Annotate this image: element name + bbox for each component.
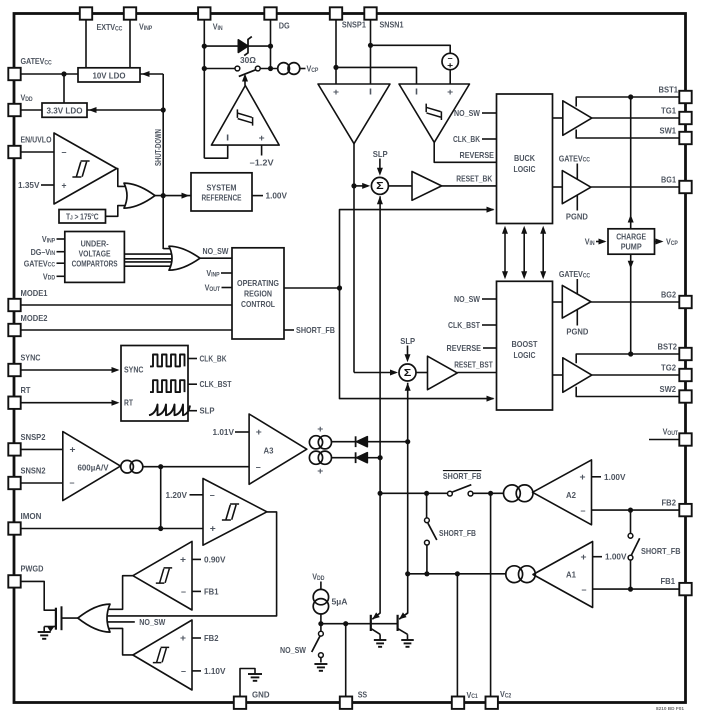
wire shutdown to 10V LDO with arrow: [140, 73, 163, 75]
wire switch to A2 mirror: [473, 492, 504, 494]
wire BST1 rail: [576, 97, 680, 107]
svg-text:NO_SW: NO_SW: [454, 108, 480, 118]
amp error A2: [533, 460, 592, 525]
svg-text:CHARGE: CHARGE: [616, 231, 646, 241]
wire A2 + to 1.00V: [592, 476, 602, 478]
wire MODE1 pin to operating region control: [21, 304, 233, 306]
wire FB2 stub: [192, 637, 201, 639]
node junction VIN/switch row: [202, 66, 207, 71]
wire IMON pin row: [21, 528, 204, 530]
pin SS: [340, 697, 352, 709]
wire SW2 rail: [576, 387, 680, 397]
regulator 10V LDO: [78, 68, 140, 82]
node junction A1 row/VC1 drop: [455, 571, 460, 576]
svg-text:TG2: TG2: [661, 363, 676, 373]
voltage source offset boost sense: [442, 53, 458, 69]
amp error A3: [249, 414, 307, 484]
amp error A1: [533, 542, 593, 608]
wire VCP output with arrow: [655, 241, 661, 243]
box oscillator SYNC/RT: [121, 346, 188, 422]
svg-text:TG1: TG1: [661, 106, 676, 116]
svg-text:–1.2V: –1.2V: [250, 157, 275, 167]
node junction GATEVCC/3.3V LDO: [61, 71, 66, 76]
wire RT pin to oscillator with arrow: [21, 402, 118, 404]
wire boost logic to BG2 driver: [553, 301, 563, 303]
wire zener row VIN to DG: [204, 45, 270, 47]
wire double arrow buck-boost 3: [542, 228, 544, 277]
comparator PWGD FB2 1.10V: [133, 620, 192, 690]
svg-text:OPERATING: OPERATING: [237, 278, 279, 288]
diode VC2 clamp top: [355, 436, 357, 447]
svg-text:I: I: [415, 87, 418, 97]
driver BG2: [562, 285, 591, 318]
svg-text:A1: A1: [566, 570, 576, 580]
pin GND: [234, 697, 246, 709]
svg-text:BG2: BG2: [661, 290, 676, 300]
wire 1.35V reference to comparator: [41, 184, 54, 186]
pin VIN top: [198, 7, 210, 19]
svg-text:CLK_BK: CLK_BK: [200, 354, 227, 364]
current mirror A1 output: [506, 566, 523, 583]
wire GATEVCC pin to 10V LDO: [21, 73, 79, 75]
gate OR PWGD (left facing): [78, 604, 110, 632]
waveform slope ramp SLP: [149, 405, 190, 416]
svg-text:NO_SW: NO_SW: [203, 246, 229, 256]
wire FB1 comparator to PWGD OR: [107, 576, 133, 610]
wire FB1 stub: [192, 590, 201, 592]
wire BST2 rail: [576, 354, 680, 363]
wire SNSN1 pin vertical: [370, 20, 372, 85]
wire boost logic to TG2 driver: [553, 374, 563, 376]
box SYSTEM REFERENCE: [191, 173, 252, 211]
wire system reference 1.00V output: [252, 195, 263, 197]
svg-text:+: +: [317, 466, 323, 476]
wire OR output to system reference with arrow: [155, 195, 191, 197]
svg-text:–: –: [582, 584, 587, 594]
ground Q2 collector: [401, 639, 414, 641]
box UNDER-VOLTAGE COMPARTORS: [65, 232, 125, 283]
svg-text:SYNC: SYNC: [21, 353, 41, 363]
svg-text:CLK_BST: CLK_BST: [200, 379, 232, 389]
svg-text:+: +: [210, 524, 216, 534]
svg-text:LOGIC: LOGIC: [514, 350, 536, 360]
svg-text:BST2: BST2: [658, 342, 678, 352]
svg-text:–: –: [256, 462, 261, 472]
svg-text:FB2: FB2: [662, 498, 677, 508]
comparator PWGD FB1 0.90V: [133, 541, 192, 610]
box BUCK LOGIC: [497, 94, 553, 224]
transistor Q1 VC1 clamp: [370, 615, 372, 631]
svg-text:–: –: [62, 147, 67, 157]
wire FB1 net: [593, 588, 680, 590]
svg-text:REFERENCE: REFERENCE: [202, 193, 242, 203]
wire SHUT-DOWN vertical net: [162, 74, 164, 249]
wire CLK_BK output stub: [188, 358, 197, 360]
wire TG2 rail: [592, 374, 680, 376]
svg-text:10V LDO: 10V LDO: [93, 70, 127, 80]
wire shutdown to 3.3V LDO with arrow: [87, 109, 163, 111]
svg-text:NO_SW: NO_SW: [280, 645, 306, 655]
wire buck logic to BG1 driver: [553, 186, 563, 188]
wire MODE2 pin to operating region control: [21, 329, 233, 331]
wire arrow SLP into sigma2: [407, 346, 409, 360]
svg-text:BST1: BST1: [659, 85, 679, 95]
current source 5uA: [313, 589, 328, 604]
box CHARGE PUMP: [608, 229, 655, 254]
svg-text:+: +: [180, 555, 186, 565]
svg-text:1.20V: 1.20V: [166, 490, 188, 500]
label NO_SW with stub into PWGD OR: [107, 621, 135, 623]
pin VC1: [452, 697, 464, 709]
amp buck current comparator: [318, 84, 390, 144]
svg-text:REVERSE: REVERSE: [447, 343, 482, 353]
current mirror A3 output quad: [309, 436, 322, 449]
pin SNSN1: [364, 7, 376, 19]
box TJ > 175C thermal: [59, 210, 106, 224]
wire EXTVCC pin to 10V LDO: [85, 20, 87, 69]
label PGND BG2 with stub: [576, 310, 578, 326]
wire A1 + to 1.00V: [593, 556, 602, 558]
wire SNSP1 pin vertical: [335, 20, 337, 85]
svg-text:RT: RT: [21, 385, 31, 395]
svg-text:SNSP2: SNSP2: [21, 432, 46, 442]
wire sense amp output to A3 -: [143, 466, 249, 468]
pin SYNC: [8, 364, 20, 376]
wire TG1 rail: [592, 117, 680, 119]
svg-text:BUCK: BUCK: [514, 153, 535, 163]
pin MODE1: [8, 299, 20, 311]
node junction shutdown/3.3V LDO: [161, 107, 166, 112]
svg-text:–: –: [181, 666, 186, 676]
svg-text:FB2: FB2: [204, 633, 219, 643]
svg-text:+: +: [580, 472, 586, 482]
wire SYNC pin to oscillator with arrow: [21, 369, 118, 371]
pin SW1: [679, 132, 691, 144]
wire arrow VC into sigma1 bottom: [377, 196, 383, 204]
driver TG2: [563, 358, 592, 393]
label PGND BG1 with stub: [576, 195, 578, 211]
wire 1.20V to comparator -: [190, 494, 204, 496]
wire buck comparator output down to sigma nodes: [353, 144, 355, 373]
pin VOUT right: [679, 433, 691, 445]
svg-text:GND: GND: [252, 690, 270, 700]
wire SW1 rail: [576, 130, 680, 139]
wire GATEVCC branch down to 3.3V LDO: [63, 74, 65, 103]
wire SNSN1 to offset source: [371, 45, 451, 53]
wire SHORT_FB output stub: [284, 329, 294, 331]
wire SNSN2 pin to sense amp: [21, 482, 63, 484]
svg-text:+: +: [256, 427, 262, 437]
wire OR output NO_SW to operating region control: [200, 257, 232, 259]
wire BG1 rail: [591, 186, 680, 188]
ground Q1 collector: [374, 639, 387, 641]
wire EN/UVLO pin to comparator: [21, 151, 55, 153]
svg-text:DG: DG: [279, 21, 290, 31]
wire sigma2 to reset comparator: [416, 372, 428, 374]
svg-text:SLP: SLP: [373, 149, 388, 159]
wire + input to -1.2V: [261, 145, 263, 155]
node junction FB1/short switch: [628, 587, 633, 592]
wire TJ box output to OR gate: [106, 206, 128, 217]
wire ORC output to boost logic with arrow: [340, 288, 494, 399]
svg-text:CONTROL: CONTROL: [241, 299, 275, 309]
svg-text:EN/UVLO: EN/UVLO: [21, 135, 52, 145]
svg-text:BOOST: BOOST: [512, 339, 538, 349]
pin SNSP1: [330, 7, 342, 19]
svg-text:PGND: PGND: [566, 327, 588, 337]
switch SHORT_FB between FB2 and FB1: [630, 510, 632, 533]
svg-text:COMPARTORS: COMPARTORS: [72, 259, 118, 269]
svg-text:SLP: SLP: [200, 406, 215, 416]
wire base rail to transistors: [321, 623, 398, 625]
svg-text:FB1: FB1: [661, 576, 676, 586]
svg-text:+: +: [447, 60, 453, 70]
pin VC2: [486, 697, 498, 709]
gate OR NO_SW generator: [169, 246, 200, 270]
svg-text:SW1: SW1: [660, 126, 677, 136]
svg-text:UNDER-: UNDER-: [81, 239, 109, 249]
wire shutdown line into OR gate: [163, 248, 172, 250]
svg-text:IMON: IMON: [21, 511, 42, 521]
svg-text:PWGD: PWGD: [21, 564, 44, 574]
svg-text:CLK_BST: CLK_BST: [448, 320, 480, 330]
wire 1.01V to A3 +: [235, 431, 249, 433]
pin SNSP2: [8, 443, 20, 455]
svg-text:A2: A2: [566, 490, 576, 500]
pin DG: [264, 7, 276, 19]
node junction SS branch: [343, 621, 348, 626]
svg-text:1.01V: 1.01V: [213, 427, 235, 437]
svg-text:SW2: SW2: [660, 384, 677, 394]
wire PWGD pin to MOSFET drain: [21, 581, 56, 610]
pin VDD: [8, 104, 20, 116]
svg-text:Σ: Σ: [376, 180, 384, 192]
pin EXTVCC: [80, 7, 92, 19]
node junction diode/VC1: [378, 455, 383, 460]
wire switch row VIN side: [204, 68, 235, 70]
wire double arrow buck-boost 2: [523, 228, 525, 277]
pin BG2: [679, 296, 691, 308]
node junction BST2/charge pump: [628, 351, 633, 356]
node junction diode/VC2: [405, 439, 410, 444]
charge pump vertical line lower with down arrow: [630, 254, 632, 354]
svg-text:REGION: REGION: [244, 289, 272, 299]
svg-text:600µA/V: 600µA/V: [78, 462, 109, 472]
svg-text:FB1: FB1: [204, 586, 219, 596]
ground MOSFET source: [38, 631, 51, 633]
wire VDD pin to 3.3V LDO: [21, 109, 43, 111]
wire SLP output stub: [188, 410, 197, 412]
svg-text:30Ω: 30Ω: [240, 55, 256, 65]
svg-text:+: +: [180, 633, 186, 643]
ground NO_SW switch: [314, 663, 327, 665]
wire diode to VC2 line: [367, 441, 407, 443]
wire A2 output row: [380, 492, 448, 494]
svg-text:SHORT_FB: SHORT_FB: [443, 471, 482, 481]
svg-text:I: I: [226, 133, 229, 143]
svg-text:+: +: [447, 87, 453, 97]
waveform clock CLK_BST: [150, 380, 185, 392]
svg-text:BG1: BG1: [661, 175, 676, 185]
svg-text:LOGIC: LOGIC: [514, 164, 536, 174]
svg-text:A3: A3: [264, 446, 274, 456]
svg-text:RESET_BST: RESET_BST: [454, 359, 493, 369]
gate OR shutdown: [124, 183, 155, 208]
wire VIN pin vertical: [203, 20, 205, 159]
node junction A2 row/short switch: [424, 491, 429, 496]
regulator 3.3V LDO: [42, 103, 87, 117]
current mirror A2 output: [504, 485, 521, 502]
node junction SNSN1: [368, 43, 373, 48]
wire A3 bottom output to diode: [332, 457, 356, 459]
svg-text:SNSN2: SNSN2: [21, 466, 46, 476]
box OPERATING REGION CONTROL: [232, 248, 284, 339]
wire arrow comparator to switch blade: [244, 80, 246, 86]
node junction shutdown line: [161, 193, 166, 198]
wire SNSP1 to boost sense amp I input: [336, 67, 417, 84]
wire A1 output row: [408, 573, 506, 575]
pin VINP top: [124, 7, 136, 19]
transistor Q2 VC2 clamp: [397, 615, 399, 631]
svg-text:SNSN1: SNSN1: [380, 20, 404, 30]
wire ORC output to buck logic with arrow: [340, 210, 494, 288]
wire buck logic to TG1 driver: [553, 117, 563, 119]
node junction buck comp / sigma1: [351, 183, 356, 188]
wire arrow into sigma2: [354, 372, 396, 374]
adder sigma buck: [371, 177, 388, 194]
wire VC2 drop to VC2 pin: [490, 493, 492, 696]
node junction 5uA/switch: [318, 621, 323, 626]
svg-text:Σ: Σ: [404, 367, 412, 379]
wire IMON comparator output to PWGD OR: [107, 512, 277, 616]
switch 30ohm DG disconnect: [235, 66, 240, 71]
svg-text:+: +: [70, 445, 76, 455]
switch SHORT_FB vertical A2-A1: [426, 493, 428, 518]
wire GND pin to ground symbol: [240, 669, 255, 697]
wire offset source to + input: [449, 70, 451, 84]
pin RT: [8, 397, 20, 409]
wire A3 top output to diode: [332, 441, 356, 443]
svg-text:NO_SW: NO_SW: [454, 294, 480, 304]
charge pump vertical line upper with up arrow: [630, 97, 632, 229]
svg-text:+: +: [62, 181, 67, 191]
svg-text:SLP: SLP: [400, 336, 415, 346]
svg-text:–: –: [70, 478, 75, 488]
current mirror 600uA/V output: [121, 460, 134, 473]
pin BG1: [679, 181, 691, 193]
svg-text:5µA: 5µA: [332, 597, 348, 607]
wire operating region control output net: [284, 287, 340, 289]
wire VC1 drop to VC1 pin: [456, 574, 458, 697]
wire VC2 vertical rail: [407, 383, 409, 614]
wire RESET_BK to buck logic: [442, 185, 497, 187]
pin GATEVCC: [8, 68, 20, 80]
amp RESET_BST comparator: [428, 356, 458, 390]
svg-text:MODE1: MODE1: [21, 288, 48, 298]
ground GND pin: [248, 673, 262, 675]
wire switch to DG node: [260, 68, 278, 70]
svg-text:SHORT_FB: SHORT_FB: [641, 546, 681, 556]
svg-text:PUMP: PUMP: [621, 242, 642, 252]
pin FB2: [679, 504, 691, 516]
pin FB1: [679, 583, 691, 595]
svg-text:1.00V: 1.00V: [605, 552, 627, 562]
node junction DG/switch/current source: [268, 66, 273, 71]
svg-text:SHORT_FB: SHORT_FB: [296, 325, 335, 335]
pin BST1: [679, 91, 691, 103]
svg-text:SHUT-DOWN: SHUT-DOWN: [153, 129, 163, 166]
svg-text:+: +: [259, 133, 265, 143]
wire source to SS node: [320, 614, 322, 624]
svg-text:+: +: [333, 87, 339, 97]
wire double arrow buck-boost 1: [504, 228, 506, 277]
diode VC1 clamp bottom: [355, 452, 357, 463]
box BOOST LOGIC: [497, 281, 553, 410]
driver BG1: [562, 171, 591, 204]
svg-text:1.00V: 1.00V: [604, 472, 626, 482]
wire BG2 rail: [591, 301, 680, 303]
node junction VC2 rail/A1 row: [405, 571, 410, 576]
wire DG pin vertical: [270, 20, 272, 69]
diode zener DG clamp: [238, 40, 248, 53]
node junction FB2/short switch: [628, 508, 633, 513]
wire arrow VC into sigma2 bottom: [405, 383, 411, 391]
svg-text:SNSP1: SNSP1: [342, 20, 366, 30]
wire comparator output to OR gate: [117, 169, 127, 187]
wire boost comparator REVERSE output to buck logic: [434, 142, 496, 162]
pin TG1: [679, 112, 691, 124]
wire VDD to current source: [320, 582, 322, 590]
svg-text:SS: SS: [358, 690, 368, 700]
svg-text:–: –: [181, 587, 186, 597]
svg-text:CLK_BK: CLK_BK: [453, 134, 480, 144]
svg-text:SYNC: SYNC: [124, 365, 144, 375]
transistor MOSFET PWGD open drain: [55, 608, 57, 630]
current source charge pump VCP: [278, 63, 290, 75]
wire SS branch to SS pin: [345, 624, 347, 697]
svg-text:RESET_BK: RESET_BK: [456, 173, 492, 183]
pin EN/UVLO: [8, 146, 20, 158]
svg-text:RT: RT: [124, 397, 133, 407]
wire VINP pin to 10V LDO: [129, 20, 131, 69]
amp 600uA/V current sense: [63, 432, 121, 501]
svg-text:+: +: [581, 552, 587, 562]
wire current source to VCP label: [300, 68, 306, 70]
wire arrow into sigma1: [354, 185, 368, 187]
node junction BST1/charge pump: [628, 94, 633, 99]
pin IMON: [8, 522, 20, 534]
waveform clock CLK_BK: [150, 355, 185, 367]
node junction DG/zener: [268, 44, 273, 49]
pin PWGD: [8, 575, 20, 587]
node junction short switch/A1 row: [424, 571, 429, 576]
svg-text:0.90V: 0.90V: [204, 554, 226, 564]
comparator IMON 1.20V: [203, 479, 267, 546]
amp RESET_BK comparator: [412, 172, 442, 201]
svg-text:1.10V: 1.10V: [204, 666, 226, 676]
svg-text:I: I: [369, 87, 372, 97]
svg-text:SYSTEM: SYSTEM: [207, 183, 237, 193]
svg-text:8210 BD F01: 8210 BD F01: [656, 706, 685, 711]
node junction ORC output: [337, 285, 342, 290]
wire FB2 comparator to PWGD OR: [107, 628, 133, 655]
svg-text:–: –: [581, 505, 586, 515]
svg-text:PGND: PGND: [566, 211, 588, 221]
svg-text:REVERSE: REVERSE: [460, 150, 495, 160]
wire CLK_BST output stub: [188, 383, 197, 385]
node junction VC1/A2 row: [378, 491, 383, 496]
wire RESET_BST to boost logic: [457, 372, 496, 374]
